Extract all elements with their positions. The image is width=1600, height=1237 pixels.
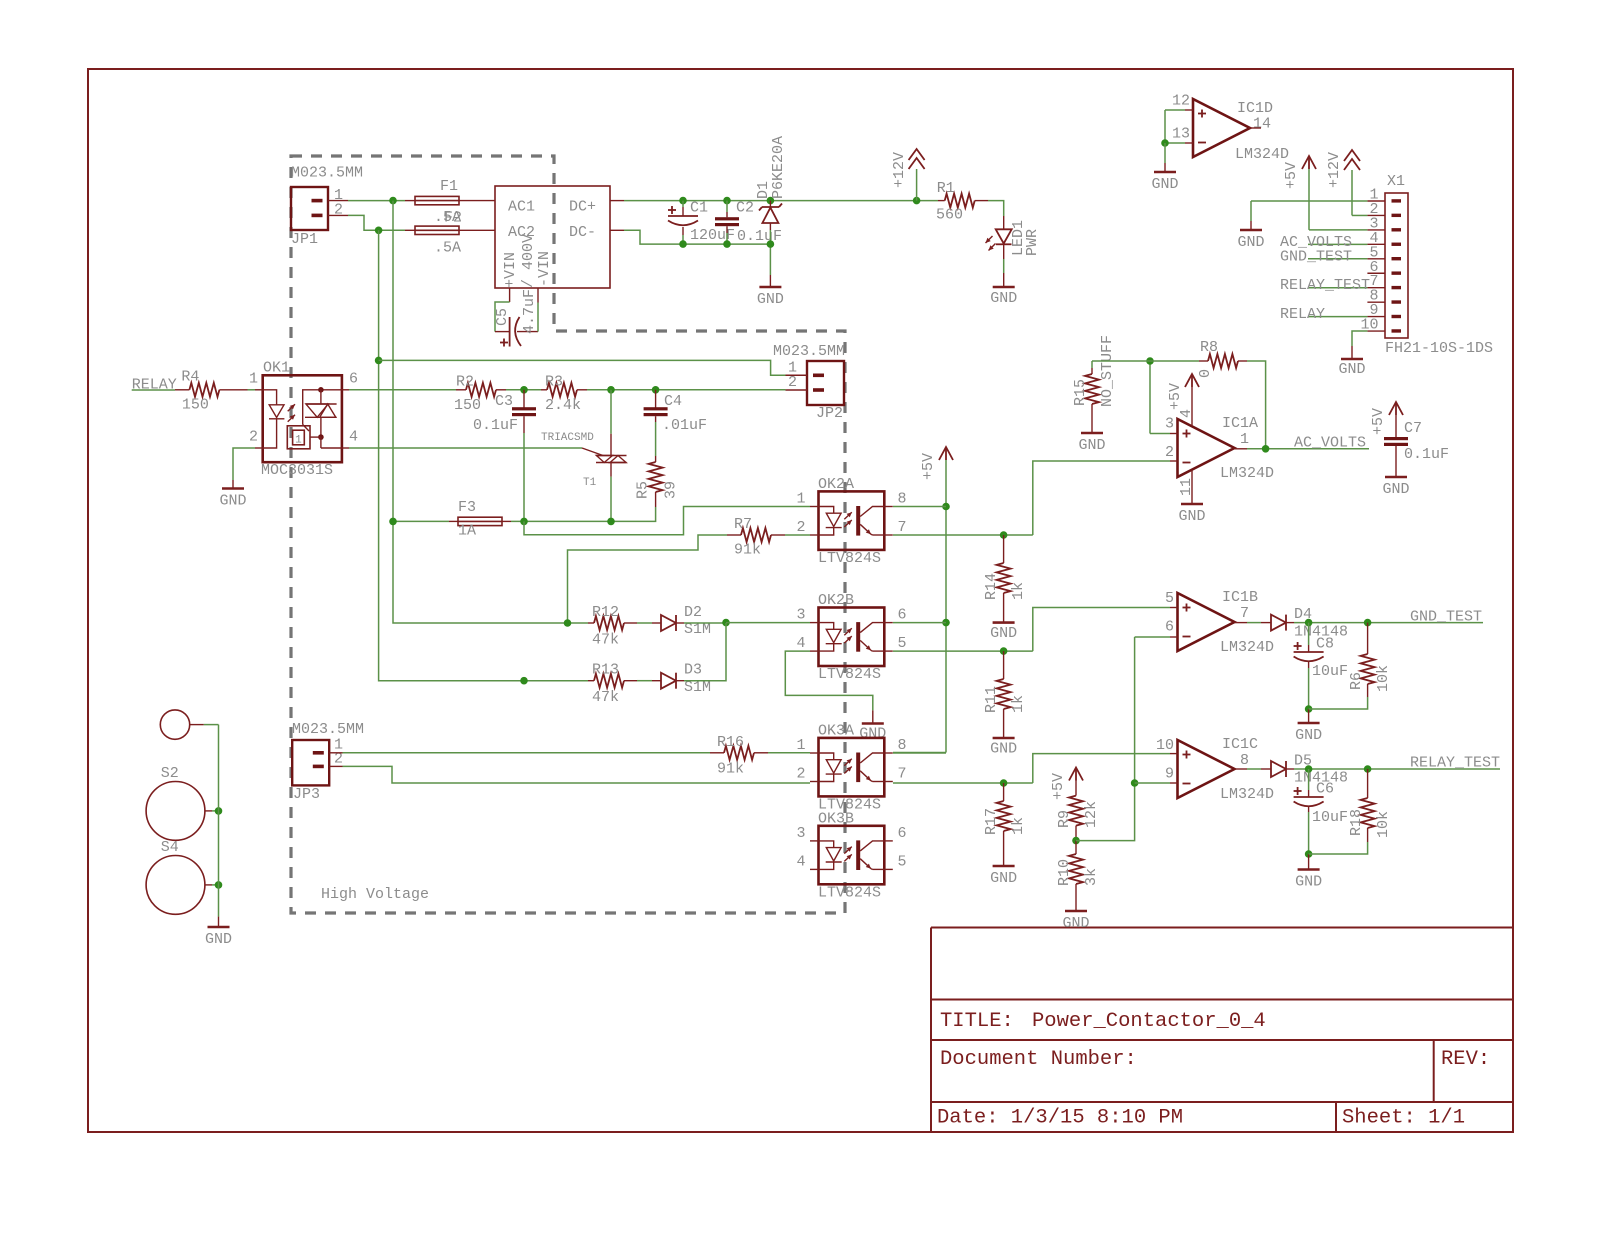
svg-text:R6: R6 (1348, 672, 1365, 690)
svg-text:GND: GND (990, 625, 1017, 642)
svg-text:GND: GND (1338, 361, 1365, 378)
svg-text:LM324D: LM324D (1220, 465, 1274, 482)
svg-text:2: 2 (796, 766, 805, 783)
svg-text:0.1uF: 0.1uF (473, 417, 518, 434)
svg-text:R7: R7 (734, 516, 752, 533)
svg-text:D2: D2 (684, 604, 702, 621)
svg-text:+5V: +5V (1370, 408, 1387, 435)
svg-text:RELAY: RELAY (1280, 306, 1325, 323)
svg-text:6: 6 (1165, 619, 1174, 636)
svg-text:R16: R16 (717, 734, 744, 751)
svg-text:F2: F2 (444, 210, 462, 227)
svg-text:M023.5MM: M023.5MM (291, 165, 363, 182)
svg-text:GND: GND (1295, 727, 1322, 744)
svg-text:C4: C4 (664, 393, 682, 410)
svg-text:S1M: S1M (684, 679, 711, 696)
svg-text:4.7uF: 4.7uF (521, 289, 538, 334)
svg-text:6: 6 (349, 370, 358, 387)
svg-text:1k: 1k (1010, 817, 1027, 835)
svg-text:R10: R10 (1056, 859, 1073, 886)
svg-text:OK1: OK1 (263, 359, 290, 376)
svg-text:LM324D: LM324D (1220, 786, 1274, 803)
svg-text:Power_Contactor_0_4: Power_Contactor_0_4 (1032, 1010, 1266, 1033)
svg-text:1k: 1k (1010, 582, 1027, 600)
svg-text:R1: R1 (937, 180, 955, 197)
svg-text:DC-: DC- (569, 224, 596, 241)
svg-text:+5V: +5V (1167, 383, 1184, 410)
svg-text:C6: C6 (1316, 781, 1334, 798)
svg-text:1: 1 (1240, 431, 1249, 448)
svg-text:DC+: DC+ (569, 198, 596, 215)
svg-text:47k: 47k (592, 689, 619, 706)
svg-text:3: 3 (796, 825, 805, 842)
svg-text:.01uF: .01uF (662, 417, 707, 434)
svg-text:R5: R5 (635, 481, 652, 499)
svg-text:1A: 1A (458, 523, 476, 540)
svg-text:C8: C8 (1316, 636, 1334, 653)
svg-text:GND: GND (1062, 915, 1089, 932)
svg-text:R11: R11 (983, 686, 1000, 713)
svg-text:6: 6 (898, 825, 907, 842)
svg-text:12: 12 (1172, 93, 1190, 110)
svg-text:IC1C: IC1C (1222, 736, 1258, 753)
svg-text:8: 8 (1240, 752, 1249, 769)
svg-text:4: 4 (349, 429, 358, 446)
svg-text:MOC3031S: MOC3031S (261, 462, 333, 479)
svg-text:GND: GND (1151, 176, 1178, 193)
svg-text:GND: GND (859, 726, 886, 743)
svg-text:12k: 12k (1083, 801, 1100, 828)
svg-text:JP2: JP2 (816, 405, 843, 422)
svg-text:LTV824S: LTV824S (818, 666, 881, 683)
svg-text:TITLE:: TITLE: (940, 1010, 1014, 1033)
svg-text:GND: GND (1178, 508, 1205, 525)
svg-text:OK2B: OK2B (818, 592, 854, 609)
svg-text:1: 1 (796, 737, 805, 754)
svg-text:C1: C1 (690, 200, 708, 217)
svg-text:RELAY_TEST: RELAY_TEST (1280, 277, 1370, 294)
svg-text:5: 5 (898, 635, 907, 652)
svg-text:R12: R12 (592, 604, 619, 621)
svg-text:+12V: +12V (891, 152, 908, 188)
svg-text:C2: C2 (736, 200, 754, 217)
svg-text:GND: GND (990, 741, 1017, 758)
svg-text:JP1: JP1 (291, 231, 318, 248)
svg-text:R18: R18 (1348, 809, 1365, 836)
svg-text:150: 150 (182, 396, 209, 413)
svg-text:2: 2 (796, 519, 805, 536)
svg-text:R15: R15 (1072, 379, 1089, 406)
svg-text:T1: T1 (583, 477, 597, 489)
svg-text:4: 4 (796, 853, 805, 870)
svg-text:39: 39 (663, 481, 680, 499)
svg-text:3: 3 (1165, 416, 1174, 433)
svg-text:AC_VOLTS: AC_VOLTS (1294, 434, 1366, 451)
svg-text:High Voltage: High Voltage (321, 886, 429, 903)
svg-text:5: 5 (898, 853, 907, 870)
svg-text:LTV824S: LTV824S (818, 550, 881, 567)
svg-text:GND: GND (757, 291, 784, 308)
svg-text:Document Number:: Document Number: (940, 1048, 1137, 1071)
svg-text:10uF: 10uF (1312, 809, 1348, 826)
svg-text:560: 560 (936, 206, 963, 223)
svg-text:R9: R9 (1056, 810, 1073, 828)
svg-text:P6KE20A: P6KE20A (770, 136, 787, 199)
svg-text:TRIACSMD: TRIACSMD (541, 432, 594, 444)
svg-text:IC1D: IC1D (1237, 100, 1273, 117)
svg-text:7: 7 (898, 766, 907, 783)
svg-text:7: 7 (898, 519, 907, 536)
svg-text:C7: C7 (1404, 420, 1422, 437)
svg-text:+VIN: +VIN (502, 252, 519, 288)
svg-text:LTV824S: LTV824S (818, 884, 881, 901)
svg-text:S2: S2 (161, 765, 179, 782)
svg-text:R2: R2 (456, 374, 474, 391)
svg-text:Sheet: 1/1: Sheet: 1/1 (1342, 1107, 1465, 1130)
svg-text:11: 11 (1178, 478, 1195, 496)
svg-text:NO_STUFF: NO_STUFF (1099, 335, 1116, 407)
svg-text:LM324D: LM324D (1220, 639, 1274, 656)
svg-text:FH21-10S-1DS: FH21-10S-1DS (1385, 340, 1493, 357)
svg-text:F1: F1 (440, 178, 458, 195)
svg-text:+5V: +5V (1050, 773, 1067, 800)
svg-text:0.1uF: 0.1uF (737, 228, 782, 245)
svg-text:.5A: .5A (434, 240, 461, 257)
svg-text:2: 2 (1165, 444, 1174, 461)
svg-text:R17: R17 (983, 808, 1000, 835)
svg-text:OK2A: OK2A (818, 476, 854, 493)
svg-text:+5V: +5V (920, 453, 937, 480)
svg-text:10: 10 (1156, 737, 1174, 754)
svg-text:X1: X1 (1387, 173, 1405, 190)
svg-text:R13: R13 (592, 662, 619, 679)
svg-text:OK3B: OK3B (818, 810, 854, 827)
svg-text:GND: GND (1237, 234, 1264, 251)
svg-text:150: 150 (454, 397, 481, 414)
svg-text:GND: GND (990, 870, 1017, 887)
svg-text:M023.5MM: M023.5MM (292, 721, 364, 738)
svg-text:2: 2 (788, 374, 797, 391)
svg-text:47k: 47k (592, 632, 619, 649)
svg-text:GND: GND (1295, 874, 1322, 891)
svg-text:0.1uF: 0.1uF (1404, 446, 1449, 463)
svg-text:10k: 10k (1375, 665, 1392, 692)
svg-text:REV:: REV: (1441, 1048, 1490, 1071)
svg-text:2.4k: 2.4k (545, 397, 581, 414)
svg-text:91k: 91k (734, 542, 761, 559)
svg-text:R8: R8 (1200, 339, 1218, 356)
svg-text:6: 6 (898, 607, 907, 624)
svg-text:13: 13 (1172, 126, 1190, 143)
svg-text:10k: 10k (1375, 811, 1392, 838)
svg-text:3k: 3k (1083, 868, 1100, 886)
svg-text:R4: R4 (181, 368, 199, 385)
svg-text:RELAY_TEST: RELAY_TEST (1410, 755, 1500, 772)
svg-text:+5V: +5V (1283, 162, 1300, 189)
svg-text:PWR: PWR (1024, 229, 1041, 256)
svg-text:C3: C3 (495, 393, 513, 410)
svg-text:Date: 1/3/15 8:10 PM: Date: 1/3/15 8:10 PM (937, 1107, 1183, 1130)
svg-text:4: 4 (1178, 409, 1195, 418)
svg-text:R3: R3 (545, 374, 563, 391)
svg-text:IC1A: IC1A (1222, 415, 1258, 432)
svg-text:0: 0 (1197, 369, 1214, 378)
svg-text:7: 7 (1240, 605, 1249, 622)
svg-text:R14: R14 (983, 573, 1000, 600)
svg-text:M023.5MM: M023.5MM (773, 343, 845, 360)
svg-text:OK3A: OK3A (818, 722, 854, 739)
svg-text:/ 400V: / 400V (520, 234, 537, 288)
svg-text:D3: D3 (684, 662, 702, 679)
svg-text:1: 1 (796, 491, 805, 508)
svg-text:JP3: JP3 (293, 786, 320, 803)
svg-text:8: 8 (898, 491, 907, 508)
svg-text:10uF: 10uF (1312, 663, 1348, 680)
svg-text:GND_TEST: GND_TEST (1280, 248, 1352, 265)
svg-text:91k: 91k (717, 760, 744, 777)
svg-text:4: 4 (796, 635, 805, 652)
svg-text:1: 1 (295, 435, 302, 447)
svg-text:8: 8 (898, 737, 907, 754)
svg-text:3: 3 (796, 607, 805, 624)
svg-text:S4: S4 (161, 839, 179, 856)
svg-text:C5: C5 (494, 308, 511, 326)
svg-text:F3: F3 (458, 499, 476, 516)
svg-text:2: 2 (249, 429, 258, 446)
svg-text:-VIN: -VIN (536, 251, 553, 287)
svg-text:GND: GND (1078, 437, 1105, 454)
svg-text:IC1B: IC1B (1222, 589, 1258, 606)
svg-text:GND: GND (1382, 481, 1409, 498)
svg-text:GND: GND (205, 931, 232, 948)
svg-text:+12V: +12V (1326, 152, 1343, 188)
svg-text:GND_TEST: GND_TEST (1410, 608, 1482, 625)
svg-text:9: 9 (1165, 766, 1174, 783)
svg-text:14: 14 (1253, 116, 1271, 133)
svg-text:AC1: AC1 (508, 198, 535, 215)
svg-text:LM324D: LM324D (1235, 146, 1289, 163)
svg-text:GND: GND (990, 290, 1017, 307)
svg-text:5: 5 (1165, 590, 1174, 607)
svg-text:1k: 1k (1010, 695, 1027, 713)
svg-text:GND: GND (219, 493, 246, 510)
svg-text:1: 1 (249, 370, 258, 387)
